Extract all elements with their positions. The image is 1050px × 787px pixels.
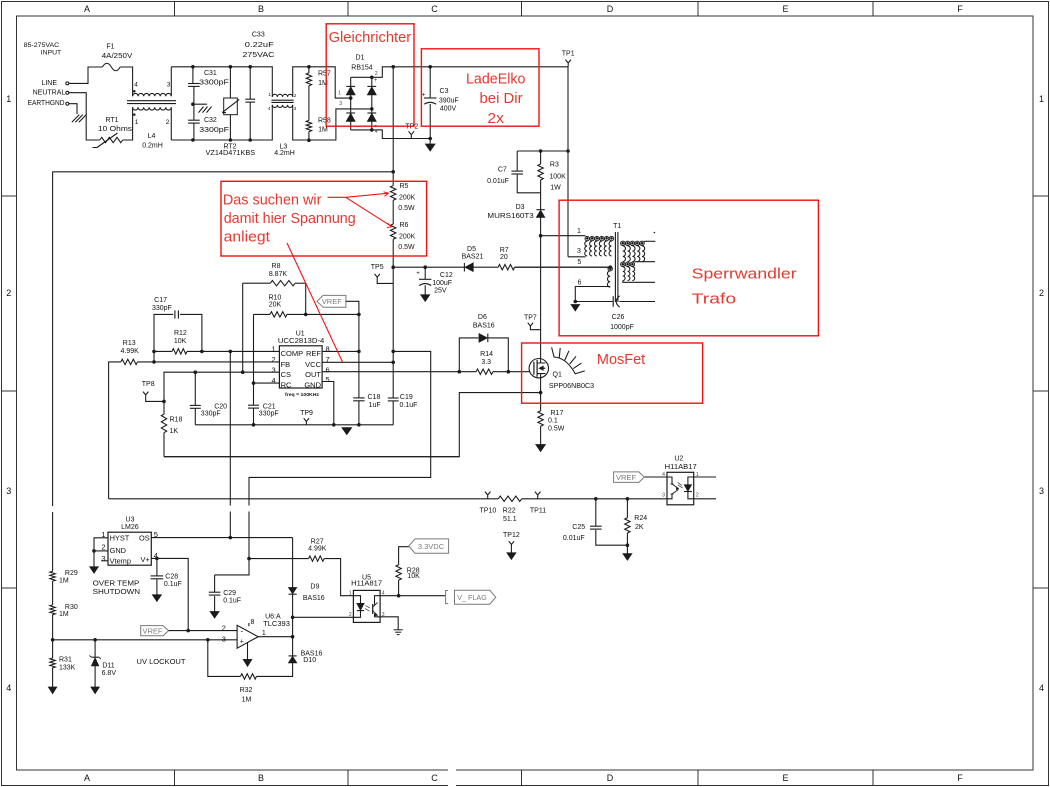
svg-text:2: 2 — [1039, 288, 1044, 298]
svg-text:R5: R5 — [400, 183, 409, 190]
svg-text:2: 2 — [166, 119, 170, 126]
svg-text:VREF: VREF — [322, 297, 342, 306]
svg-text:1M: 1M — [318, 127, 328, 134]
svg-text:0.1uF: 0.1uF — [223, 598, 241, 605]
svg-text:E: E — [782, 773, 788, 783]
svg-text:C7: C7 — [498, 166, 507, 173]
svg-text:LadeElko: LadeElko — [466, 71, 526, 88]
svg-text:C18: C18 — [368, 394, 381, 401]
svg-text:R32: R32 — [240, 687, 253, 694]
svg-text:2K: 2K — [635, 524, 644, 531]
svg-text:bei Dir: bei Dir — [480, 90, 523, 107]
svg-text:20: 20 — [500, 254, 508, 261]
svg-text:2: 2 — [349, 612, 352, 618]
svg-text:BAS16: BAS16 — [303, 595, 325, 602]
svg-text:SPP06NB0C3: SPP06NB0C3 — [549, 383, 594, 390]
svg-text:REF: REF — [306, 349, 321, 358]
svg-text:0.22uF: 0.22uF — [245, 42, 274, 49]
svg-text:R12: R12 — [174, 330, 187, 337]
svg-text:133K: 133K — [59, 664, 76, 671]
svg-text:Trafo: Trafo — [692, 290, 736, 307]
svg-text:1: 1 — [262, 630, 266, 637]
svg-text:2: 2 — [222, 623, 226, 632]
svg-text:4: 4 — [382, 591, 385, 597]
svg-text:1K: 1K — [170, 428, 179, 435]
svg-text:3.3: 3.3 — [481, 359, 491, 366]
svg-text:Das suchen wir: Das suchen wir — [223, 192, 322, 209]
svg-text:LM26: LM26 — [121, 524, 139, 531]
svg-text:OS: OS — [139, 533, 150, 542]
svg-text:C: C — [431, 773, 438, 783]
svg-text:FB: FB — [281, 360, 291, 369]
svg-text:25V: 25V — [434, 287, 447, 294]
svg-text:R3: R3 — [550, 162, 559, 169]
svg-text:0.2mH: 0.2mH — [142, 143, 163, 150]
svg-text:R24: R24 — [634, 515, 647, 522]
svg-text:3: 3 — [6, 486, 11, 496]
svg-text:C: C — [431, 4, 438, 14]
svg-text:100K: 100K — [549, 173, 566, 180]
svg-text:UV LOCKOUT: UV LOCKOUT — [137, 657, 186, 666]
svg-text:1M: 1M — [242, 696, 252, 703]
svg-text:F: F — [957, 773, 963, 783]
svg-text:D3: D3 — [516, 204, 525, 211]
svg-text:3: 3 — [577, 248, 581, 255]
svg-text:VCC: VCC — [305, 360, 321, 369]
svg-text:2: 2 — [6, 288, 11, 298]
svg-text:1: 1 — [135, 119, 139, 126]
svg-text:BAS21: BAS21 — [462, 253, 484, 260]
svg-text:4: 4 — [662, 472, 665, 478]
svg-text:+: + — [240, 639, 244, 646]
svg-text:1M: 1M — [59, 578, 69, 585]
svg-text:R7: R7 — [500, 247, 509, 254]
svg-text:2x: 2x — [487, 110, 504, 127]
svg-text:H11AB17: H11AB17 — [665, 464, 697, 471]
svg-text:R18: R18 — [170, 417, 183, 424]
svg-text:10K: 10K — [174, 338, 187, 345]
svg-text:1: 1 — [349, 591, 352, 597]
svg-text:TP5: TP5 — [371, 264, 384, 271]
svg-text:2: 2 — [375, 71, 378, 77]
svg-text:8: 8 — [326, 344, 330, 353]
svg-text:4: 4 — [1039, 683, 1044, 693]
svg-text:4: 4 — [375, 129, 378, 135]
svg-text:1: 1 — [6, 94, 11, 104]
svg-text:1: 1 — [272, 344, 276, 353]
svg-text:10K: 10K — [407, 573, 420, 580]
svg-text:3.3VDC: 3.3VDC — [418, 542, 445, 551]
svg-text:6: 6 — [326, 365, 330, 374]
svg-text:RC: RC — [281, 381, 292, 390]
svg-text:F1: F1 — [106, 44, 114, 51]
svg-text:3300pF: 3300pF — [199, 127, 229, 134]
svg-text:3: 3 — [222, 635, 226, 644]
svg-text:F: F — [957, 4, 963, 14]
svg-text:100uF: 100uF — [432, 280, 452, 287]
svg-text:TP12: TP12 — [503, 532, 520, 539]
svg-text:3: 3 — [339, 101, 342, 107]
svg-text:T1: T1 — [613, 223, 621, 230]
svg-text:0.1uF: 0.1uF — [400, 402, 418, 409]
svg-text:0.01uF: 0.01uF — [487, 178, 509, 185]
svg-text:4.99K: 4.99K — [121, 348, 140, 355]
svg-text:1000pF: 1000pF — [610, 324, 634, 331]
svg-text:C31: C31 — [204, 70, 217, 77]
svg-text:GND: GND — [110, 546, 126, 555]
svg-text:2: 2 — [696, 492, 699, 498]
svg-text:C25: C25 — [572, 524, 585, 531]
svg-text:VZ14D471KBS: VZ14D471KBS — [206, 150, 256, 157]
svg-text:RB154: RB154 — [351, 65, 373, 72]
svg-text:Q1: Q1 — [553, 372, 562, 379]
svg-text:400V: 400V — [440, 106, 457, 113]
svg-text:U3: U3 — [126, 516, 135, 523]
svg-text:B: B — [258, 773, 264, 783]
svg-text:D1: D1 — [356, 55, 365, 62]
svg-text:-: - — [240, 626, 243, 635]
svg-text:U1: U1 — [296, 331, 305, 338]
svg-text:GND: GND — [304, 381, 321, 390]
svg-text:R13: R13 — [123, 340, 136, 347]
svg-text:2: 2 — [101, 543, 105, 552]
svg-text:0.5W: 0.5W — [398, 244, 415, 251]
svg-text:10 Ohms: 10 Ohms — [98, 126, 133, 133]
svg-text:R29: R29 — [65, 570, 78, 577]
svg-text:C17: C17 — [154, 297, 167, 304]
svg-text:VREF: VREF — [142, 627, 162, 636]
svg-text:R17: R17 — [551, 410, 564, 417]
svg-text:CS: CS — [281, 370, 291, 379]
svg-text:1W: 1W — [550, 184, 561, 191]
svg-text:0.5W: 0.5W — [398, 205, 415, 212]
svg-text:OUT: OUT — [305, 370, 321, 379]
svg-text:V_ FLAG: V_ FLAG — [457, 593, 487, 602]
svg-text:U6:A: U6:A — [265, 614, 281, 621]
svg-text:4: 4 — [272, 376, 276, 385]
svg-text:TP7: TP7 — [524, 314, 537, 321]
svg-text:R58: R58 — [318, 118, 331, 125]
svg-text:TP1: TP1 — [562, 51, 575, 58]
svg-text:200K: 200K — [399, 194, 416, 201]
svg-text:VREF: VREF — [616, 473, 636, 482]
svg-text:3: 3 — [1039, 486, 1044, 496]
svg-text:E: E — [782, 4, 788, 14]
svg-text:INPUT: INPUT — [41, 50, 61, 57]
svg-text:R57: R57 — [318, 71, 331, 78]
svg-text:TP9: TP9 — [300, 410, 313, 417]
svg-text:B: B — [258, 4, 264, 14]
svg-text:4.2mH: 4.2mH — [274, 150, 295, 157]
svg-text:TP2: TP2 — [405, 124, 418, 131]
svg-text:HYST: HYST — [110, 533, 130, 542]
svg-text:0.01uF: 0.01uF — [563, 535, 585, 542]
svg-text:TLC393: TLC393 — [263, 621, 290, 628]
svg-text:H11A817: H11A817 — [351, 581, 382, 588]
svg-text:MosFet: MosFet — [597, 351, 646, 368]
svg-text:51.1: 51.1 — [503, 516, 517, 523]
svg-text:C3: C3 — [440, 88, 449, 95]
svg-text:L4: L4 — [148, 133, 156, 140]
svg-text:TP8: TP8 — [142, 381, 155, 388]
svg-text:4A/250V: 4A/250V — [102, 53, 133, 60]
svg-text:3: 3 — [272, 365, 276, 374]
svg-text:+: + — [416, 271, 420, 277]
svg-text:BAS16: BAS16 — [473, 322, 495, 329]
svg-text:anliegt: anliegt — [224, 228, 271, 245]
svg-text:D6: D6 — [478, 314, 487, 321]
svg-text:5: 5 — [577, 259, 581, 266]
svg-text:R14: R14 — [480, 351, 493, 358]
svg-text:1uF: 1uF — [369, 402, 381, 409]
svg-text:275VAC: 275VAC — [243, 52, 275, 59]
svg-text:330pF: 330pF — [259, 410, 279, 417]
svg-text:R30: R30 — [65, 604, 78, 611]
svg-text:C26: C26 — [612, 314, 625, 321]
svg-text:C12: C12 — [440, 272, 453, 279]
svg-text:R31: R31 — [59, 657, 72, 664]
svg-text:6: 6 — [577, 280, 581, 287]
svg-text:D5: D5 — [467, 246, 476, 253]
svg-text:0.1uF: 0.1uF — [164, 581, 182, 588]
svg-text:D11: D11 — [102, 662, 114, 669]
svg-text:390uF: 390uF — [439, 98, 459, 105]
svg-text:NEUTRAL: NEUTRAL — [33, 89, 66, 96]
svg-text:R22: R22 — [503, 508, 516, 515]
svg-text:6.8V: 6.8V — [102, 670, 117, 677]
svg-text:8.87K: 8.87K — [269, 271, 288, 278]
svg-text:+: + — [374, 78, 378, 84]
svg-text:TP10: TP10 — [480, 508, 497, 515]
svg-text:85-275VAC: 85-275VAC — [24, 42, 60, 49]
svg-text:C33: C33 — [252, 31, 265, 38]
svg-text:D: D — [607, 4, 614, 14]
svg-text:1: 1 — [1039, 94, 1044, 104]
svg-text:SHUTDOWN: SHUTDOWN — [93, 587, 141, 596]
svg-text:4.99K: 4.99K — [308, 545, 327, 552]
svg-text:4: 4 — [6, 683, 11, 693]
svg-text:3: 3 — [662, 492, 665, 498]
svg-text:3: 3 — [101, 554, 105, 563]
svg-text:UCC2813D-4: UCC2813D-4 — [278, 338, 325, 345]
svg-text:3300pF: 3300pF — [199, 80, 229, 87]
svg-text:0.5W: 0.5W — [548, 426, 565, 433]
svg-text:330pF: 330pF — [201, 410, 221, 417]
svg-text:200K: 200K — [399, 233, 416, 240]
svg-text:MURS160T3: MURS160T3 — [487, 213, 533, 220]
svg-text:3: 3 — [382, 612, 385, 618]
svg-text:freq = 100KHz: freq = 100KHz — [285, 392, 319, 397]
svg-text:EARTHGND: EARTHGND — [28, 100, 65, 107]
svg-text:R6: R6 — [400, 222, 409, 229]
svg-text:R8: R8 — [272, 263, 281, 270]
svg-text:U2: U2 — [674, 455, 683, 462]
svg-text:C29: C29 — [223, 590, 236, 597]
svg-text:TP11: TP11 — [530, 508, 546, 515]
svg-text:A: A — [84, 773, 90, 783]
svg-text:C32: C32 — [204, 117, 217, 124]
svg-text:1: 1 — [696, 472, 699, 478]
svg-text:3: 3 — [167, 82, 171, 89]
svg-text:LINE: LINE — [41, 80, 57, 87]
svg-text:C28: C28 — [165, 573, 178, 580]
svg-text:D9: D9 — [310, 584, 319, 591]
svg-text:330pF: 330pF — [152, 305, 172, 312]
svg-text:+: + — [422, 92, 426, 99]
svg-text:0.1: 0.1 — [548, 418, 558, 425]
svg-text:1: 1 — [577, 228, 581, 235]
svg-text:8: 8 — [251, 619, 255, 626]
svg-text:Vtemp: Vtemp — [110, 557, 131, 566]
svg-text:2: 2 — [272, 355, 276, 364]
svg-text:Sperrwandler: Sperrwandler — [692, 266, 797, 283]
svg-text:20K: 20K — [269, 301, 282, 308]
svg-text:Gleichrichter: Gleichrichter — [329, 29, 412, 46]
svg-text:1M: 1M — [59, 611, 69, 618]
svg-text:1: 1 — [338, 90, 341, 96]
svg-text:4: 4 — [134, 82, 138, 89]
svg-text:D: D — [607, 773, 614, 783]
svg-text:RT1: RT1 — [105, 117, 118, 124]
svg-text:C19: C19 — [400, 394, 413, 401]
svg-text:R10: R10 — [268, 294, 281, 301]
svg-text:5: 5 — [326, 375, 330, 384]
svg-text:V+: V+ — [140, 555, 149, 564]
svg-text:D10: D10 — [303, 657, 316, 664]
svg-text:damit hier Spannung: damit hier Spannung — [224, 210, 356, 227]
svg-text:A: A — [84, 4, 90, 14]
svg-text:COMP: COMP — [281, 349, 304, 358]
